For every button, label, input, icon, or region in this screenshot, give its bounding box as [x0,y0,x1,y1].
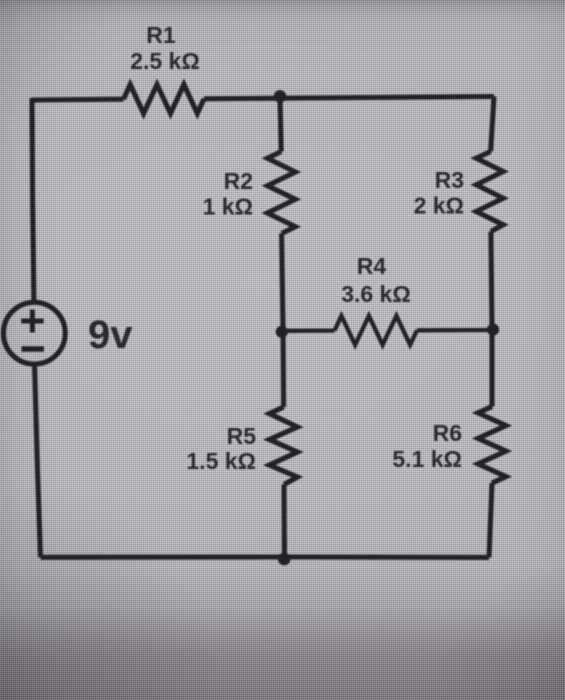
svg-text:9v: 9v [88,313,133,357]
node junction top [274,90,287,103]
svg-text:R3: R3 [435,167,464,193]
wire right upper segment [491,97,494,152]
wire left bottom [35,364,41,558]
node junction bottom [278,553,291,566]
svg-text:2.5 kΩ: 2.5 kΩ [130,48,200,74]
V1 plus sign [21,310,43,333]
svg-text:R2: R2 [224,168,253,194]
wire bottom [41,554,490,560]
wire middle column lower segment [281,485,287,558]
svg-text:1 kΩ: 1 kΩ [203,194,253,220]
wire middle column center segment [282,234,284,408]
resistor R5 1.5 kΩ (zigzag) [269,407,297,485]
svg-text:2 kΩ: 2 kΩ [414,193,464,219]
resistor R2 1 kΩ (zigzag) [267,152,295,234]
wire middle column upper segment [280,96,281,151]
svg-text:R6: R6 [433,420,462,446]
node junction R4 right [487,324,499,336]
wire left top [32,98,34,303]
svg-text:3.6 kΩ: 3.6 kΩ [341,281,411,307]
wire top right segment [204,97,494,99]
resistor R3 2 kΩ (zigzag) [476,152,503,232]
voltage source V1 circle [3,302,65,364]
wire R4 left stub [283,328,335,332]
wire R4 right stub [417,328,492,333]
svg-text:R1: R1 [146,22,176,48]
svg-text:R5: R5 [227,423,257,449]
V1 minus sign [22,346,45,352]
wire right middle segment [491,232,492,407]
svg-text:5.1 kΩ: 5.1 kΩ [392,446,462,472]
node junction R4 left [276,326,288,338]
resistor R1 2.5 kΩ (zigzag) [124,85,205,114]
resistor R6 5.1 kΩ (zigzag) [478,407,506,484]
resistor R4 3.6 kΩ (zigzag) [335,316,418,345]
svg-text:R4: R4 [357,253,387,279]
wire top left segment [32,97,124,103]
wire right lower segment [489,483,492,557]
svg-text:1.5 kΩ: 1.5 kΩ [186,448,256,474]
